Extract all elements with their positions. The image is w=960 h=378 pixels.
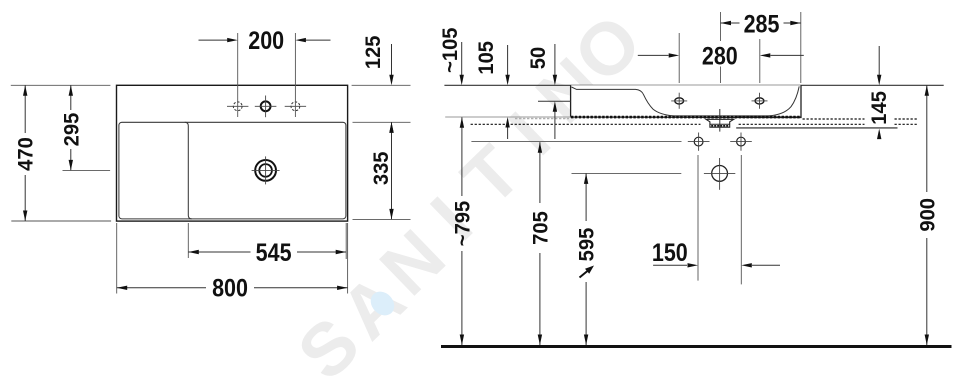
- svg-text:150: 150: [652, 238, 688, 266]
- inner bottom depth line (50 ref): [538, 100, 571, 102]
- dim 280 extension lines: [678, 33, 680, 83]
- dotted installation line: [471, 123, 865, 125]
- dim 335 line with arrows: [391, 122, 393, 219]
- drain hole (top view): [255, 160, 276, 181]
- dim 295 line with arrows: [70, 85, 72, 110]
- dim 295 extension line (drain centre): [63, 169, 111, 171]
- mounting hole marker right (front view): [755, 98, 764, 104]
- dim 595 adjust arrow: [580, 269, 591, 278]
- svg-text:595: 595: [575, 228, 598, 262]
- svg-text:~105: ~105: [438, 27, 461, 72]
- svg-text:470: 470: [14, 137, 37, 171]
- basin bottom sealing strip (hatch): [571, 116, 801, 119]
- svg-text:285: 285: [744, 10, 780, 38]
- dim 145 lower reference line: [736, 127, 897, 129]
- svg-text:545: 545: [256, 238, 292, 266]
- dim 285 extension lines: [720, 12, 722, 41]
- basin inner edge outline: [119, 122, 346, 219]
- dim 285 line with arrows: [721, 22, 740, 24]
- bolt hole level extension line: [471, 141, 681, 143]
- svg-text:705: 705: [529, 211, 552, 245]
- dim ~795 line with arrows: [461, 117, 463, 196]
- dim 145 arrows: [878, 46, 880, 76]
- dim 470 line with arrows: [24, 85, 26, 133]
- mounting hole marker left (front view): [675, 98, 684, 104]
- dim 125 arrows: [391, 44, 393, 76]
- dim 335 extension line bottom: [353, 218, 411, 220]
- svg-text:50: 50: [527, 47, 550, 69]
- svg-text:900: 900: [916, 198, 939, 232]
- dim 470 extension lines: [11, 84, 111, 86]
- dim 150 leaders and arrows: [653, 264, 687, 266]
- drain centreline: [719, 109, 721, 132]
- watermark blue droplet: [366, 287, 399, 320]
- dim 280 leaders and arrows: [638, 54, 669, 56]
- floor line: [441, 345, 952, 348]
- dim 150 extension lines: [697, 155, 699, 281]
- fixing bolt hole right: [737, 137, 746, 146]
- dim 900 line with arrows: [926, 85, 928, 192]
- svg-text:280: 280: [702, 42, 738, 70]
- dim 705 line with arrows: [539, 142, 541, 203]
- dim 800 extension lines: [116, 223, 118, 294]
- siphon outlet hole: [712, 166, 728, 182]
- svg-text:200: 200: [248, 27, 284, 55]
- svg-text:~795: ~795: [451, 201, 474, 246]
- bottom level line left (grey): [445, 116, 570, 118]
- dim 50 arrows: [554, 44, 556, 76]
- svg-text:105: 105: [475, 41, 498, 75]
- wall reference top line: [444, 84, 943, 86]
- dim 200 leaders and arrows: [199, 39, 228, 41]
- dim 800 line with arrows: [117, 287, 206, 289]
- svg-text:145: 145: [868, 91, 891, 125]
- siphon level extension line: [572, 172, 682, 174]
- washbasin outer rim (top view): [117, 85, 348, 221]
- dim 595 line with arrows: [585, 173, 587, 221]
- dim 545 line with arrows: [188, 251, 250, 253]
- svg-text:125: 125: [361, 35, 384, 69]
- svg-text:335: 335: [370, 151, 393, 185]
- svg-text:800: 800: [212, 274, 248, 302]
- basin bottom edge line right portion: [736, 116, 801, 118]
- dotted bottom-edge line right: [803, 118, 865, 120]
- faucet hole left (dashed option): [233, 102, 242, 111]
- fixing bolt hole left: [694, 137, 703, 146]
- dim 545 extension lines: [187, 223, 189, 258]
- bowl edge (divider between shelf and bowl): [185, 122, 192, 219]
- basin inner profile curve: [572, 86, 800, 116]
- dim 105 arrows: [507, 45, 509, 76]
- svg-text:295: 295: [60, 113, 83, 147]
- drain fitting (front view): [706, 119, 734, 127]
- white mask under drain: [701, 121, 739, 129]
- faucet hole centre (solid): [261, 101, 271, 111]
- faucet hole right (dashed option): [291, 102, 300, 111]
- basin body (front view): [571, 85, 801, 117]
- dim 125 extension lines: [352, 84, 411, 86]
- dim 200 extension lines: [237, 33, 239, 117]
- dim ~105 arrows: [461, 42, 463, 76]
